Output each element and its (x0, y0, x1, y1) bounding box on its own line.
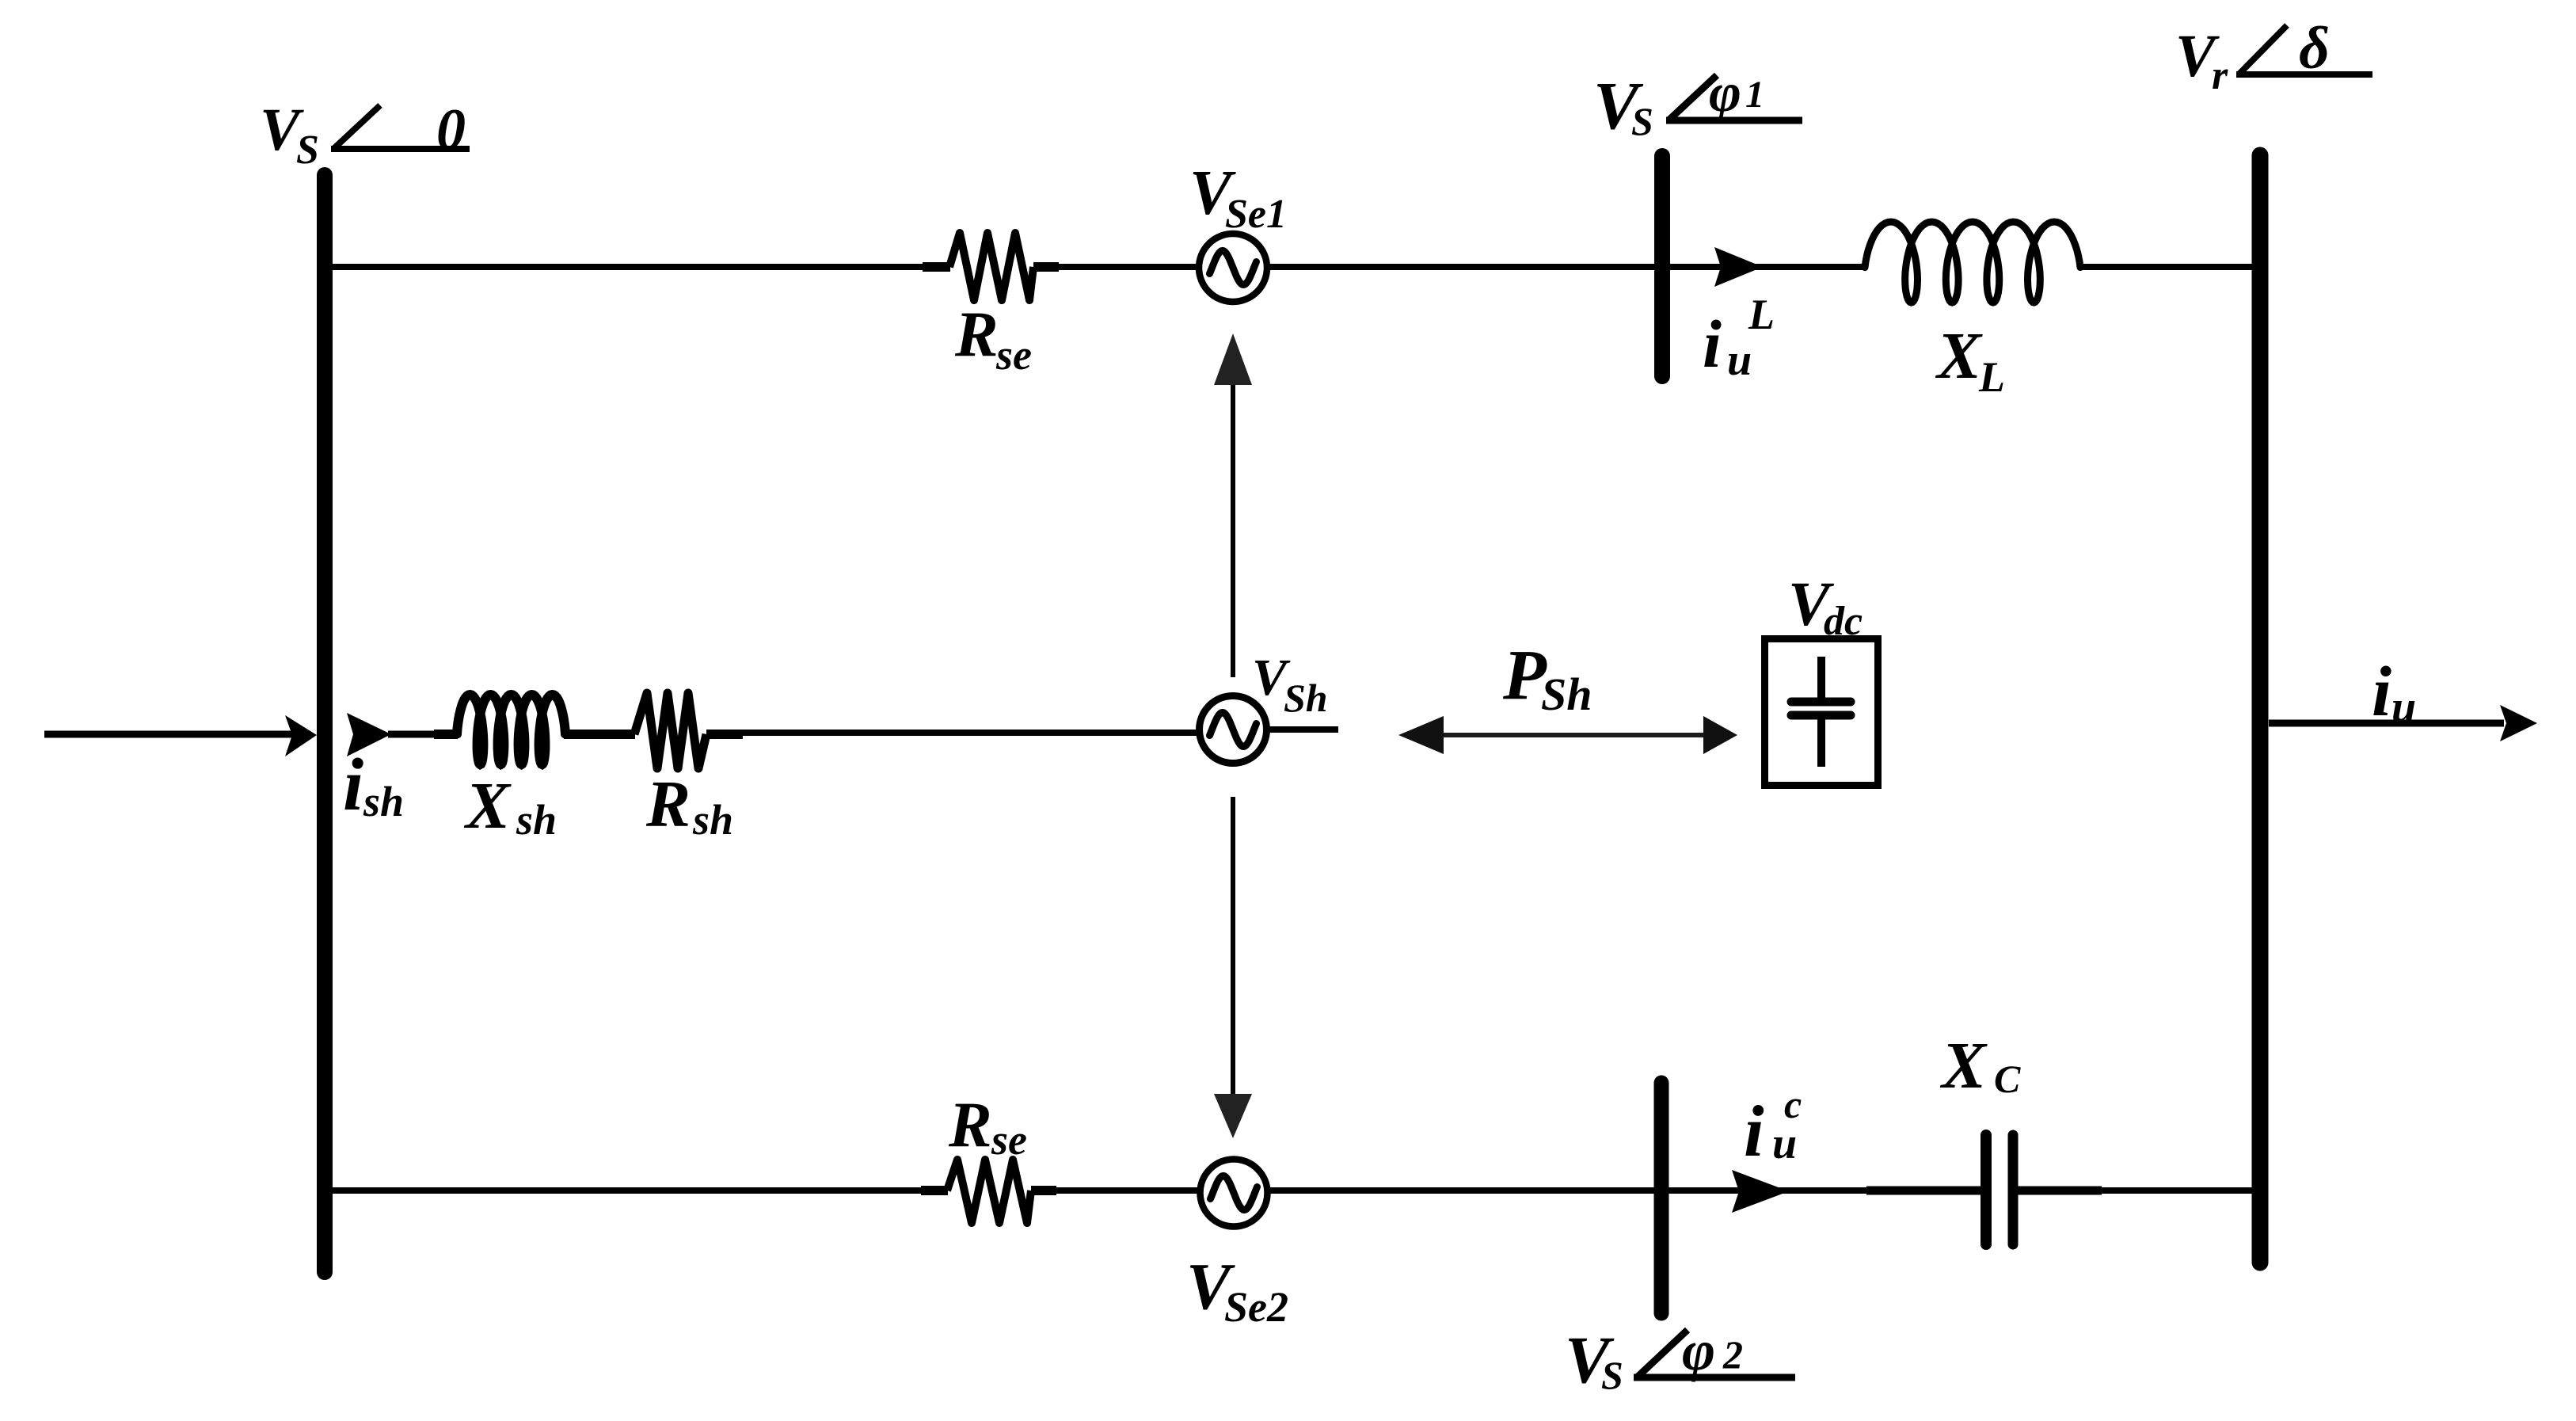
label VS angle phi2 (1565, 1319, 1795, 1397)
svg-text:c: c (1784, 1082, 1802, 1126)
wire from arrow to Xsh (388, 731, 443, 738)
svg-text:u: u (2391, 683, 2416, 732)
svg-text:Se1: Se1 (1225, 192, 1287, 237)
PSh exchange arrow (double headed) (1398, 636, 1737, 754)
inductor Xsh (457, 695, 565, 844)
svg-text:u: u (1772, 1119, 1797, 1168)
source VSe2 (1186, 1160, 1288, 1331)
vertical link to VSe1: arrowhead up (1214, 333, 1252, 385)
svg-text:φ: φ (1682, 1319, 1715, 1382)
bus VS (left sending bus) (317, 175, 333, 1272)
svg-text:δ: δ (2299, 15, 2330, 82)
svg-text:sh: sh (516, 796, 557, 844)
wire from XL to Vr bus (2079, 264, 2252, 270)
wire top branch left segment (331, 264, 927, 270)
svg-text:2: 2 (1722, 1332, 1743, 1377)
svg-text:X: X (1939, 1029, 1988, 1103)
svg-text:i: i (343, 744, 363, 826)
svg-text:L: L (1978, 353, 2005, 401)
svg-text:se: se (995, 331, 1032, 379)
wire top branch right segment (1267, 264, 1866, 270)
svg-text:i: i (1703, 306, 1722, 382)
svg-text:S: S (1631, 99, 1653, 143)
wire iu output arrow right of Vr bus (2269, 653, 2537, 741)
wire bottom branch Rse-to-VSe2 segment (1054, 1187, 1198, 1194)
svg-text:1: 1 (1745, 74, 1764, 116)
svg-text:S: S (1601, 1353, 1623, 1397)
node Vr angle delta label (2175, 15, 2372, 98)
wire bottom branch right segment (1268, 1187, 1984, 1194)
svg-text:φ: φ (1709, 63, 1741, 124)
label iuc (1744, 1082, 1802, 1171)
svg-text:X: X (1935, 319, 1983, 393)
resistor Rse (bottom) (921, 1088, 1056, 1223)
wire Rsh lead to VSh (741, 730, 1199, 736)
wire lead into Xsh (434, 730, 458, 739)
svg-text:u: u (1727, 336, 1752, 385)
arrowhead ish after bus (347, 713, 391, 756)
svg-text:i: i (1744, 1091, 1764, 1171)
resistor Rse (top) (923, 233, 1059, 379)
bus tap VS angle phi2 (bottom mini-bus) (1654, 1083, 1669, 1313)
svg-text:Sh: Sh (1541, 669, 1592, 720)
svg-text:S: S (296, 128, 319, 173)
label VS angle phi1 (1593, 63, 1802, 143)
svg-text:sh: sh (692, 796, 733, 844)
wire XC to Vr bus (2018, 1187, 2252, 1194)
bus tap VS angle phi1 (top mini-bus) (1654, 156, 1670, 376)
svg-text:0: 0 (436, 97, 466, 162)
wire Rsh to VSh (706, 730, 743, 739)
svg-text:dc: dc (1824, 599, 1863, 644)
wire top branch Rse-to-VSe1 segment (1056, 264, 1199, 270)
source VSe1 (1189, 158, 1287, 302)
svg-text:R: R (954, 298, 999, 370)
svg-text:C: C (1994, 1057, 2021, 1101)
svg-text:se: se (991, 1116, 1027, 1164)
svg-text:R: R (645, 768, 691, 841)
bus Vr (right receiving bus) (2252, 155, 2269, 1263)
svg-text:sh: sh (363, 778, 404, 825)
arrow iuL on top wire (1714, 247, 1763, 287)
svg-text:Sh: Sh (1284, 676, 1328, 720)
node VS angle 0 label (260, 97, 470, 173)
svg-text:L: L (1748, 291, 1775, 338)
arrowhead down to VSe2 (1214, 1094, 1252, 1138)
svg-text:R: R (948, 1088, 992, 1160)
inductor XL (1865, 222, 2080, 401)
wire vertical lower link (1231, 797, 1235, 1094)
wire stub right of VSh (1267, 726, 1338, 733)
source VSh (1200, 649, 1328, 764)
svg-text:r: r (2212, 53, 2228, 98)
svg-text:Se2: Se2 (1224, 1283, 1288, 1331)
svg-text:i: i (2372, 653, 2391, 731)
wire vertical upper link (1231, 385, 1235, 677)
label iuL (1703, 291, 1775, 385)
arrow iuc on bottom wire (1732, 1170, 1789, 1213)
wire middle input with arrow (44, 731, 295, 738)
label ish (343, 744, 404, 826)
wire Xsh to Rsh (564, 730, 635, 739)
arrowhead at bus (input) (285, 715, 317, 756)
resistor Rsh (634, 693, 733, 844)
Vdc dc-link box (1765, 570, 1878, 786)
capacitor XC (1866, 1029, 2102, 1244)
svg-text:X: X (463, 769, 512, 843)
wire bottom branch left segment (331, 1187, 923, 1194)
